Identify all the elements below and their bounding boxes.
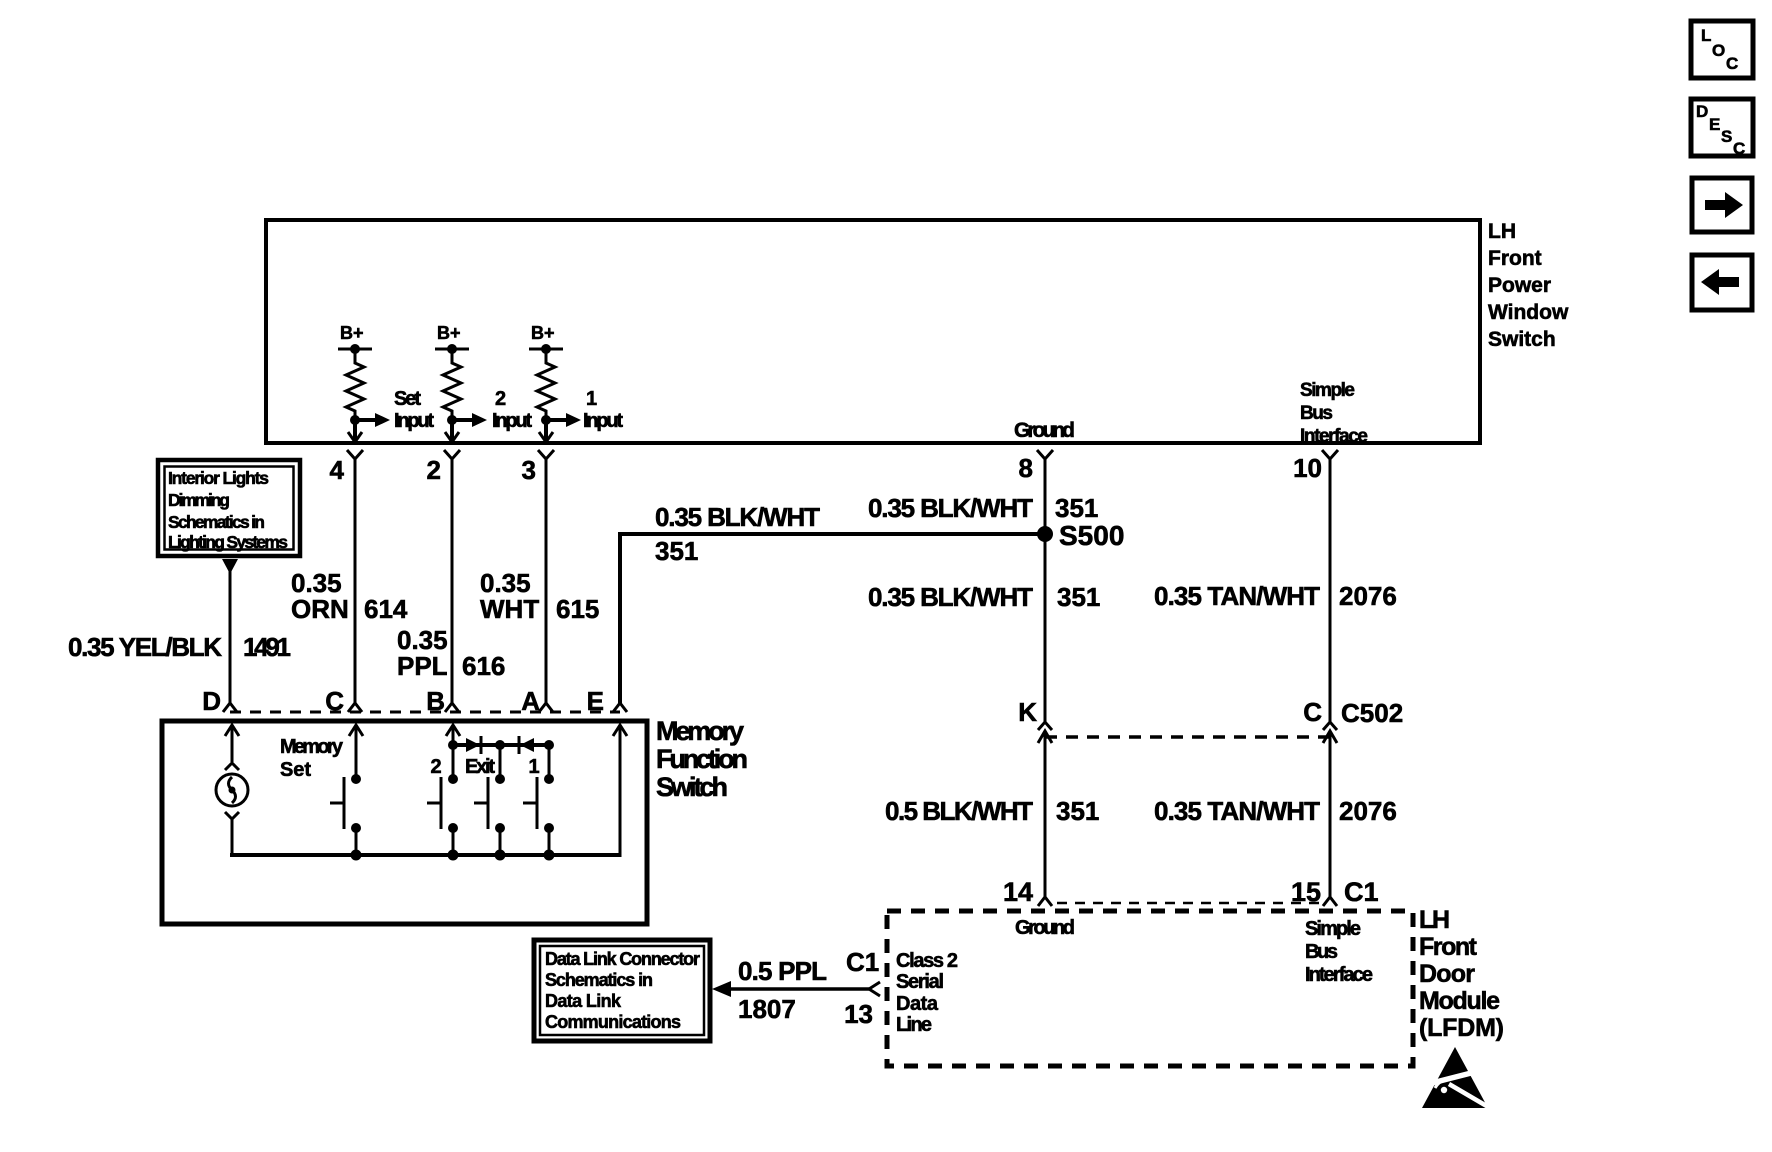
svg-text:8: 8	[1019, 453, 1033, 483]
splice S500	[1037, 520, 1124, 551]
pin 3	[522, 450, 554, 485]
wire common bus	[230, 853, 621, 857]
svg-text:Serial: Serial	[896, 971, 944, 993]
wire 351 (K to pin14)	[1044, 731, 1047, 897]
svg-text:1807: 1807	[738, 994, 796, 1024]
Interior Lights reference box	[158, 460, 300, 556]
svg-text:2076: 2076	[1339, 796, 1397, 826]
node 2-input junction	[447, 415, 457, 425]
label Class 2 Serial Data Line	[896, 950, 958, 1036]
svg-text:351: 351	[1056, 796, 1099, 826]
svg-text:0.5 BLK/WHT: 0.5 BLK/WHT	[885, 796, 1033, 826]
pin 13	[844, 947, 880, 1029]
svg-text:Window: Window	[1488, 301, 1569, 324]
svg-text:Lighting Systems: Lighting Systems	[168, 532, 288, 552]
svg-text:S: S	[1721, 127, 1732, 146]
svg-text:Memory: Memory	[280, 736, 344, 758]
wire R2 down arrow to pin 2	[445, 420, 459, 442]
svg-text:WHT: WHT	[480, 594, 539, 624]
svg-text:O: O	[1712, 41, 1725, 60]
svg-text:Set: Set	[394, 388, 421, 410]
wire diode rail	[453, 743, 549, 747]
svg-text:E: E	[587, 686, 604, 716]
svg-text:0.35 BLK/WHT: 0.35 BLK/WHT	[868, 582, 1033, 612]
svg-text:Schematics in: Schematics in	[168, 512, 265, 532]
svg-text:Bus: Bus	[1305, 941, 1338, 963]
Memory Function Switch box S1	[162, 721, 647, 924]
svg-text:Input: Input	[492, 410, 532, 432]
svg-text:Set: Set	[280, 759, 311, 781]
svg-text:Input: Input	[394, 410, 434, 432]
svg-text:(LFDM): (LFDM)	[1419, 1014, 1504, 1042]
label Simple Bus Interface (LFDM)	[1305, 918, 1373, 986]
node B+ (2)	[435, 323, 469, 354]
pin 4	[330, 450, 363, 485]
wire 1807 (arrow to data link connector)	[712, 981, 869, 997]
svg-text:0.35 TAN/WHT: 0.35 TAN/WHT	[1154, 581, 1320, 611]
wire D branch arrow	[225, 725, 239, 762]
pin C (C502)	[1303, 697, 1403, 743]
svg-text:616: 616	[462, 651, 505, 681]
svg-text:0.35 TAN/WHT: 0.35 TAN/WHT	[1154, 796, 1320, 826]
wire 615 (pin3 to A)	[545, 464, 548, 703]
svg-text:2: 2	[430, 756, 441, 778]
svg-text:Interface: Interface	[1300, 426, 1368, 447]
node 1-input junction	[541, 415, 551, 425]
button LOC	[1691, 21, 1753, 78]
svg-text:Data: Data	[896, 993, 939, 1015]
svg-text:Memory: Memory	[656, 716, 744, 746]
node B diode junction	[448, 740, 458, 750]
svg-text:1: 1	[528, 756, 539, 778]
svg-text:Interface: Interface	[1305, 964, 1373, 986]
wire R3 down arrow to pin 3	[539, 420, 553, 442]
wire B branch arrow	[446, 725, 460, 779]
label 0.35 PPL	[397, 625, 448, 681]
node set-input junction	[350, 415, 360, 425]
svg-text:Bus: Bus	[1300, 403, 1333, 424]
label Set Input	[394, 388, 434, 432]
svg-text:C502: C502	[1341, 698, 1403, 728]
svg-text:B: B	[426, 686, 445, 716]
svg-text:0.35 BLK/WHT: 0.35 BLK/WHT	[868, 493, 1033, 523]
svg-text:Input: Input	[583, 410, 623, 432]
svg-text:15: 15	[1291, 877, 1321, 907]
svg-text:351: 351	[655, 536, 698, 566]
svg-text:614: 614	[364, 594, 408, 624]
svg-text:Door: Door	[1419, 960, 1475, 988]
node A diode junction	[544, 740, 554, 750]
svg-text:Ground: Ground	[1015, 917, 1075, 939]
svg-text:D: D	[202, 686, 221, 716]
label LH Front Door Module (LFDM)	[1419, 906, 1504, 1042]
svg-text:Line: Line	[896, 1014, 932, 1036]
label Memory Set	[280, 736, 344, 781]
svg-text:Interior Lights: Interior Lights	[168, 468, 269, 488]
wire 2076 (C502 to pin15)	[1329, 731, 1332, 897]
connector C502 row (dashed)	[1045, 735, 1330, 739]
svg-text:B+: B+	[340, 323, 364, 343]
pin 15	[1291, 877, 1379, 907]
label 0.35 ORN	[291, 568, 349, 624]
svg-text:LH: LH	[1488, 220, 1516, 243]
label 0.35 WHT	[480, 568, 539, 624]
node Exit top	[495, 740, 505, 750]
switch 1 SW4	[523, 745, 554, 855]
pin 2	[427, 450, 460, 485]
node B+ (3)	[529, 323, 563, 354]
button back (left arrow)	[1692, 255, 1752, 310]
wire 351 (pin8 to K)	[1044, 464, 1047, 722]
ESD sensitive symbol	[1422, 1047, 1490, 1108]
svg-text:3: 3	[522, 455, 536, 485]
pin 10	[1293, 450, 1338, 483]
svg-text:Ground: Ground	[1014, 419, 1075, 442]
pin 8	[1019, 450, 1053, 483]
svg-text:Simple: Simple	[1300, 380, 1355, 401]
pin K	[1018, 697, 1052, 743]
wire 1-input arrow right	[546, 413, 581, 427]
wire lamp to bus	[231, 819, 234, 857]
svg-text:C1: C1	[1344, 877, 1379, 907]
button next (right arrow)	[1692, 178, 1752, 232]
pin 14	[1003, 877, 1052, 907]
svg-text:K: K	[1018, 697, 1037, 727]
svg-text:14: 14	[1003, 877, 1033, 907]
node B+ (1)	[338, 323, 372, 354]
LH Front Power Window Switch box U1	[266, 220, 1480, 443]
svg-text:A: A	[521, 686, 540, 716]
svg-text:Switch: Switch	[656, 772, 728, 802]
svg-text:Schematics in: Schematics in	[545, 970, 653, 990]
svg-text:S500: S500	[1059, 520, 1124, 551]
switch Exit SW3	[474, 745, 505, 855]
svg-text:615: 615	[556, 594, 599, 624]
wire 1491 (arrow from interior lights box to D)	[222, 559, 238, 703]
pin E	[587, 686, 627, 716]
wire 616 (pin2 to B)	[451, 464, 454, 703]
label Memory Function Switch	[656, 716, 748, 802]
svg-text:1491: 1491	[243, 632, 291, 662]
svg-text:1: 1	[586, 388, 597, 410]
label 1 Input	[583, 388, 623, 432]
svg-text:C1: C1	[846, 947, 879, 977]
label LH Front Power Window Switch	[1488, 220, 1569, 351]
LH Front Door Module box (LFDM)	[887, 911, 1413, 1066]
svg-text:E: E	[1709, 115, 1720, 134]
svg-text:0.5 PPL: 0.5 PPL	[738, 956, 827, 986]
svg-text:Module: Module	[1419, 987, 1500, 1015]
resistor R1 (Set)	[346, 349, 364, 420]
pin B	[426, 686, 459, 716]
switch 2 SW2	[427, 774, 458, 855]
wire E branch arrow	[613, 725, 627, 857]
svg-text:4: 4	[330, 455, 345, 485]
node bus 2	[448, 850, 459, 861]
pin D	[202, 686, 237, 716]
svg-text:2076: 2076	[1339, 581, 1397, 611]
svg-text:2: 2	[495, 388, 506, 410]
svg-text:Simple: Simple	[1305, 918, 1361, 940]
label 2 Input	[492, 388, 532, 432]
svg-text:D: D	[1696, 102, 1708, 121]
svg-text:Class 2: Class 2	[896, 950, 958, 972]
resistor R3 (1)	[537, 349, 555, 420]
svg-text:Data Link Connector: Data Link Connector	[545, 949, 700, 969]
svg-text:PPL: PPL	[397, 651, 448, 681]
node bus 1	[544, 850, 555, 861]
wire set-input arrow right	[355, 413, 390, 427]
Data Link Connector reference box	[534, 940, 710, 1041]
svg-text:LH: LH	[1419, 906, 1450, 934]
connector C1 row (dashed)	[1057, 902, 1319, 905]
svg-text:10: 10	[1293, 453, 1322, 483]
svg-text:C: C	[1303, 697, 1322, 727]
svg-text:351: 351	[1055, 493, 1098, 523]
svg-text:Power: Power	[1488, 274, 1551, 297]
svg-text:C: C	[1726, 54, 1738, 73]
pin A	[521, 686, 553, 716]
pin C	[325, 686, 362, 716]
switch memory-set SW1	[330, 774, 361, 855]
resistor R2 (2)	[443, 349, 461, 420]
wire C branch arrow	[349, 725, 363, 779]
svg-text:0.35 YEL/BLK: 0.35 YEL/BLK	[68, 632, 222, 662]
diode D2	[519, 736, 534, 754]
svg-text:C: C	[325, 686, 344, 716]
svg-text:2: 2	[427, 455, 441, 485]
node bus C	[351, 850, 362, 861]
wire 2-input arrow right	[452, 413, 487, 427]
wire R1 down arrow to pin 4	[348, 420, 362, 442]
wire 2076 (pin10 to C502)	[1329, 464, 1332, 722]
node bus Exit	[495, 850, 506, 861]
wire 351 horizontal (E to S500)	[620, 534, 1045, 703]
svg-text:B+: B+	[531, 323, 555, 343]
svg-text:Switch: Switch	[1488, 328, 1556, 351]
svg-text:Data Link: Data Link	[545, 991, 622, 1011]
svg-text:C: C	[1733, 139, 1745, 158]
svg-text:Dimming: Dimming	[168, 490, 230, 510]
svg-text:B+: B+	[437, 323, 461, 343]
svg-text:Front: Front	[1419, 933, 1478, 961]
svg-text:L: L	[1701, 26, 1711, 45]
lamp (memory set indicator)	[216, 763, 248, 819]
svg-text:0.35 BLK/WHT: 0.35 BLK/WHT	[655, 502, 820, 532]
wire 614 (pin4 to C)	[354, 464, 357, 703]
svg-text:Communications: Communications	[545, 1012, 681, 1032]
svg-text:Front: Front	[1488, 247, 1542, 270]
diode D1	[466, 736, 481, 754]
label Simple Bus Interface (switch)	[1300, 380, 1368, 447]
svg-text:Exit: Exit	[465, 756, 495, 778]
svg-text:ORN: ORN	[291, 594, 349, 624]
connector row D C B A E (dashed)	[230, 711, 620, 714]
svg-text:351: 351	[1057, 582, 1100, 612]
svg-text:13: 13	[844, 999, 873, 1029]
svg-text:Function: Function	[656, 744, 748, 774]
button DESC	[1691, 99, 1753, 158]
